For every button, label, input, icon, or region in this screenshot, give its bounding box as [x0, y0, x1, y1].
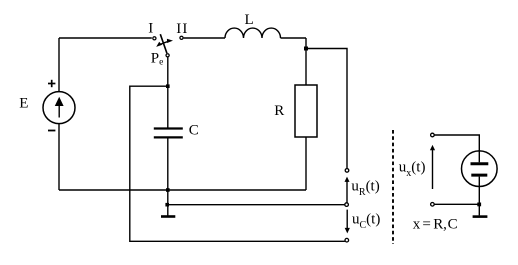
- arrow uR pointing up: [345, 177, 350, 203]
- junction dot node A: [166, 84, 170, 88]
- junction dot node above R: [304, 47, 308, 51]
- wire ux top to source: [434, 135, 479, 151]
- wire from inductor to corner above R: [281, 37, 307, 39]
- terminal ux top: [431, 133, 435, 137]
- ground stub right: [478, 204, 480, 215]
- wire middle terminal to ground node: [168, 204, 345, 206]
- svg-text:x=R,C: x=R,C: [413, 216, 458, 232]
- terminal common middle: [345, 203, 349, 207]
- capacitor C top plate: [154, 127, 183, 129]
- switch contact I: [153, 37, 156, 40]
- junction dot at common tap: [165, 203, 169, 207]
- wire ux bottom to node: [434, 203, 479, 205]
- source bottom lead to node: [478, 177, 480, 205]
- svg-text:C: C: [189, 123, 199, 139]
- dashed separator line: [392, 130, 394, 244]
- wire from contact II to inductor: [184, 37, 225, 39]
- voltage source E circle: [43, 92, 75, 124]
- wire capacitor bottom lead to ground: [167, 139, 169, 216]
- wire left vertical E top lead: [58, 38, 60, 92]
- inductor L: [225, 28, 281, 38]
- arrow uC pointing down: [345, 210, 350, 234]
- wire top-left from E to switch contact I: [59, 37, 152, 39]
- plus sign of E: [48, 80, 55, 87]
- wire switch Pe down to capacitor: [167, 57, 169, 128]
- minus sign of E: [48, 130, 55, 132]
- svg-text:R: R: [274, 103, 284, 119]
- arrow ux pointing up: [430, 145, 435, 189]
- svg-text:II: II: [176, 21, 188, 37]
- switch motion arrow: [156, 39, 173, 47]
- svg-text:I: I: [148, 21, 153, 37]
- voltage source E arrow: [55, 97, 64, 118]
- source inner lead top: [478, 151, 480, 162]
- wire bottom terminal left, up, and jog to node A: [130, 86, 345, 241]
- wire corner down to node: [305, 38, 307, 85]
- terminal uC bottom: [345, 238, 349, 242]
- svg-text:L: L: [245, 12, 254, 28]
- ground symbol right: [473, 215, 488, 218]
- wire node to uR terminal: horizontal then down: [306, 49, 347, 169]
- source Ux circle: [462, 151, 498, 187]
- switch contact II: [180, 36, 183, 39]
- source inner bottom bar: [471, 174, 487, 177]
- switch contact Pe: [166, 54, 169, 57]
- wire R bottom lead: [305, 137, 307, 190]
- terminal ux bottom: [431, 203, 435, 207]
- junction dot right: [477, 203, 481, 207]
- ground symbol left: [161, 215, 175, 218]
- wire bottom rail: [59, 189, 306, 191]
- capacitor C bottom plate: [154, 136, 183, 138]
- wire E bottom lead: [58, 124, 60, 190]
- source inner top bar: [471, 162, 489, 165]
- svg-text:E: E: [19, 96, 28, 112]
- junction dot on bottom rail: [166, 188, 170, 192]
- terminal uR top: [345, 169, 349, 173]
- resistor R box: [295, 85, 317, 137]
- switch blade: [160, 34, 167, 53]
